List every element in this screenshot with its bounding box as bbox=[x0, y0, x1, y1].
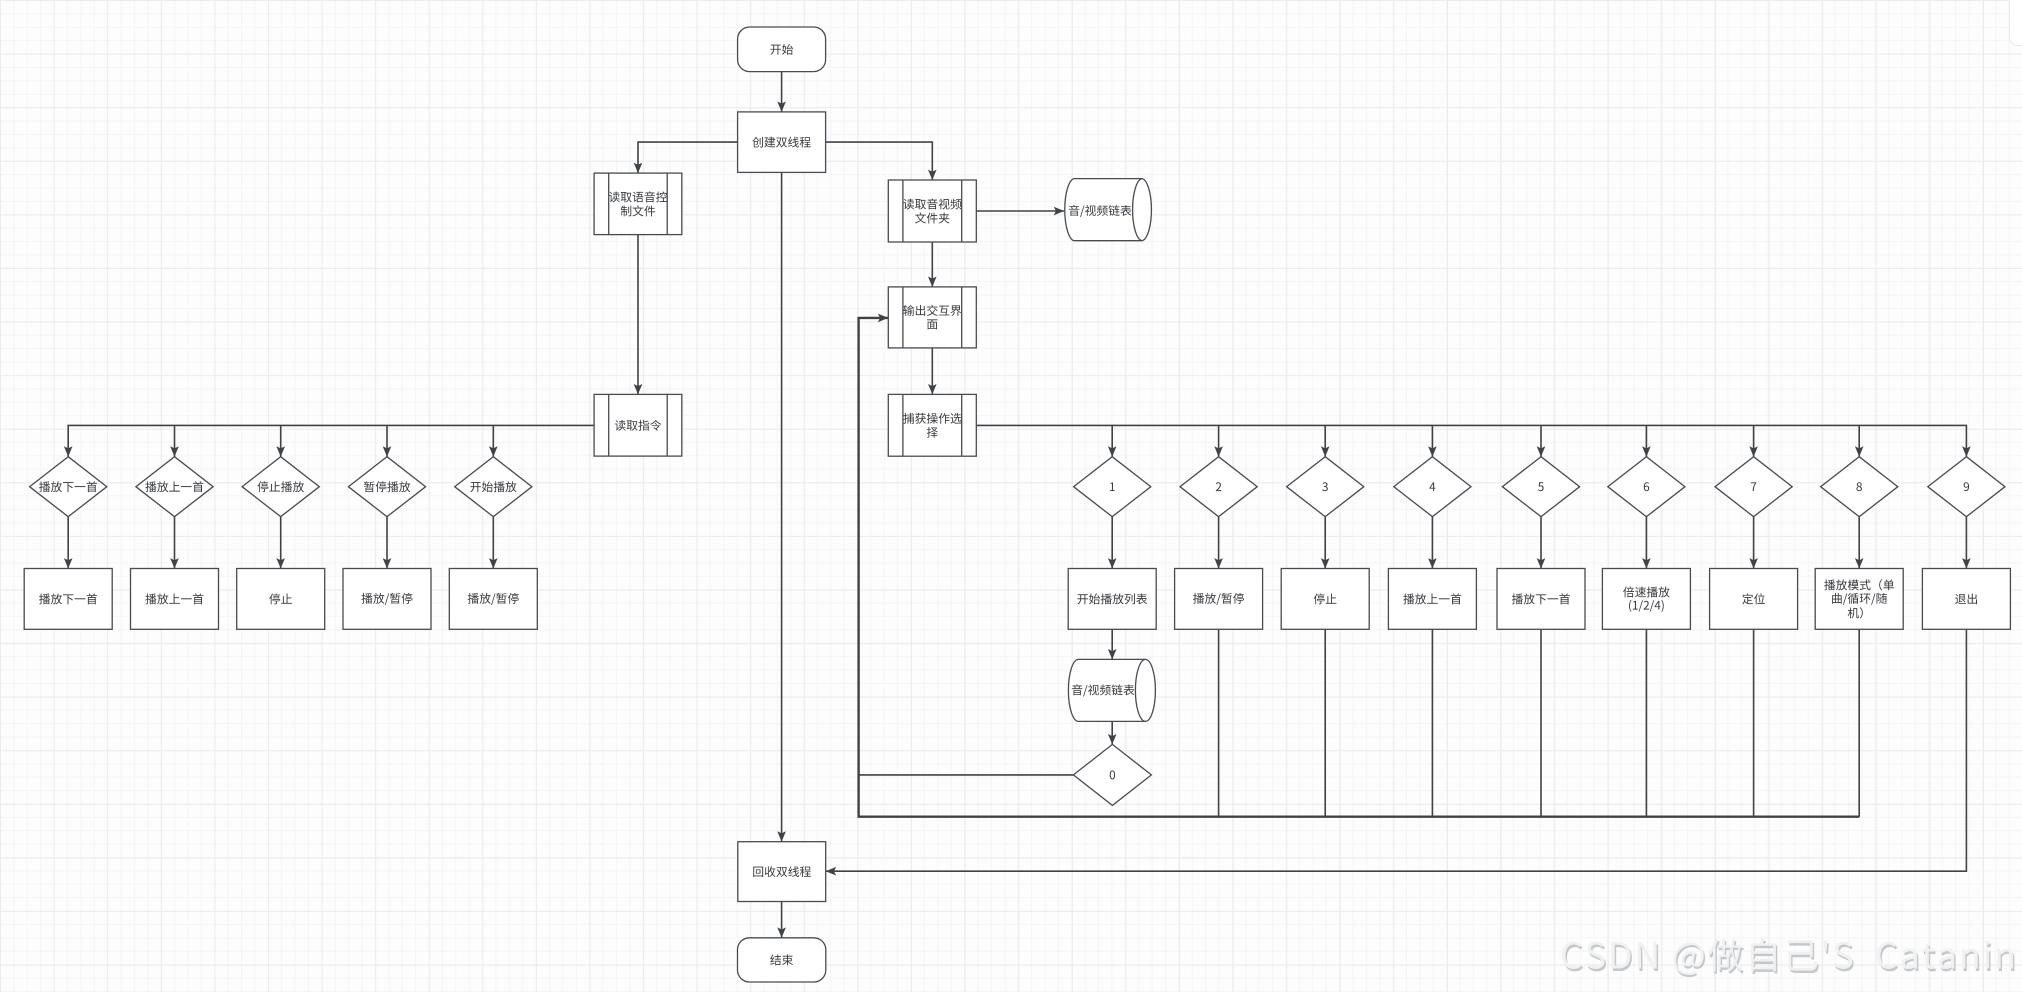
wire: diamond to action box bbox=[1540, 517, 1542, 569]
wire: loop back bus to output-ui bbox=[859, 318, 1860, 817]
label: 创建双线程 bbox=[752, 137, 810, 148]
wire: read-av-folder to output-ui bbox=[931, 242, 933, 287]
wire: right bus drop bbox=[1111, 425, 1113, 456]
action box: 停止 bbox=[1281, 569, 1369, 630]
wire: left bus from read-command bbox=[68, 425, 594, 456]
decision diamond: 1 bbox=[1074, 457, 1151, 517]
wire: action box drop to loop bus bbox=[1431, 629, 1433, 816]
decision diamond: 播放上一首 bbox=[136, 457, 213, 517]
decision diamond: 4 bbox=[1394, 457, 1471, 517]
scrollbar widget top-right bbox=[2009, 0, 2022, 46]
label: 播放上一首 bbox=[1403, 593, 1461, 604]
label: 7 bbox=[1751, 482, 1756, 491]
label: 播放/暂停 bbox=[468, 593, 519, 605]
decision diamond: 暂停播放 bbox=[348, 457, 425, 517]
label: 播放上一首 bbox=[145, 481, 203, 492]
decision diamond: 播放下一首 bbox=[30, 457, 107, 517]
wire: right bus drop bbox=[1540, 425, 1542, 456]
wire: exit to recycle-threads bbox=[826, 629, 1967, 871]
label: 播放/暂停 bbox=[361, 593, 412, 605]
decision diamond: 3 bbox=[1287, 457, 1364, 517]
action box: 播放下一首 bbox=[1497, 569, 1585, 630]
predefined process: 读取指令 bbox=[594, 394, 682, 456]
label: 播放下一首 bbox=[39, 481, 97, 492]
decision diamond: 0 bbox=[1073, 744, 1151, 805]
action box: 播放上一首 bbox=[1388, 569, 1476, 630]
predefined process: 读取语音控制文件 bbox=[594, 173, 682, 235]
label: 回收双线程 bbox=[753, 866, 811, 877]
wire: right bus drop bbox=[1324, 425, 1326, 456]
label: 暂停播放 bbox=[364, 481, 410, 492]
label: 播放上一首 bbox=[145, 593, 203, 604]
decision diamond: 5 bbox=[1502, 457, 1579, 517]
action box: 播放下一首 bbox=[24, 569, 112, 630]
decision diamond: 9 bbox=[1928, 457, 2005, 517]
wire: diamond 0 to loop line bbox=[859, 774, 1074, 776]
label: 停止 bbox=[1314, 593, 1337, 604]
action box: 播放/暂停 bbox=[1175, 569, 1263, 630]
label: 播放下一首 bbox=[39, 593, 97, 604]
wire: action box drop to loop bus bbox=[1645, 629, 1647, 816]
wire: action box drop to loop bus bbox=[1858, 629, 1860, 816]
storage cylinder: 音/视频链表 (top) bbox=[1065, 179, 1152, 241]
label: 开始播放列表 bbox=[1077, 593, 1147, 604]
label: 停止 bbox=[269, 593, 292, 604]
wire: start-playlist to av-list cylinder 2 bbox=[1111, 629, 1113, 659]
decision diamond: 2 bbox=[1180, 457, 1257, 517]
predefined process: 捕获操作选择 bbox=[888, 394, 976, 456]
decision diamond: 7 bbox=[1715, 457, 1792, 517]
label: 1 bbox=[1110, 482, 1115, 491]
label: 定位 bbox=[1742, 593, 1765, 604]
label: 音/视频链表 bbox=[1072, 684, 1135, 696]
wire: action box drop to loop bus bbox=[1753, 629, 1755, 816]
label: 读取语音控/制文件 bbox=[609, 191, 667, 202]
wire: right bus drop bbox=[1645, 425, 1647, 456]
label: 停止播放 bbox=[257, 481, 303, 492]
predefined process: 输出交互界面 bbox=[888, 287, 976, 348]
label: 倍速播放/(1/2/4) bbox=[1623, 586, 1670, 597]
wire: output-ui to capture-choice bbox=[931, 348, 933, 395]
action box: 定位 bbox=[1710, 569, 1798, 630]
wire: right bus drop bbox=[1753, 425, 1755, 456]
wire: diamond to action box bbox=[174, 517, 176, 569]
wire: diamond to action box bbox=[67, 517, 69, 569]
label: 4 bbox=[1429, 482, 1435, 491]
action box: 开始播放列表 bbox=[1068, 569, 1156, 630]
wire: diamond to action box bbox=[1431, 517, 1433, 569]
wire: diamond to action box bbox=[386, 517, 388, 569]
label: 2 bbox=[1216, 482, 1221, 491]
label: 退出 bbox=[1955, 593, 1977, 604]
action box: 倍速播放(1/2/4) bbox=[1602, 569, 1690, 630]
wire: left bus drop bbox=[174, 425, 176, 456]
wire: diamond to action box bbox=[1324, 517, 1326, 569]
label: 3 bbox=[1322, 482, 1328, 491]
wire: recycle-threads to end bbox=[781, 902, 783, 938]
wire: read-voice-file to read-command bbox=[637, 235, 639, 395]
wire: read-av-folder to av-list cylinder bbox=[976, 210, 1064, 212]
label: 9 bbox=[1964, 482, 1969, 491]
label: 音/视频链表 bbox=[1069, 205, 1132, 217]
label: 播放下一首 bbox=[1512, 593, 1570, 604]
wire: action box drop to loop bus bbox=[1324, 629, 1326, 816]
label: 读取音视频/文件夹 bbox=[903, 198, 961, 209]
action box: 退出 bbox=[1922, 569, 2010, 630]
storage cylinder: 音/视频链表 (bottom) bbox=[1068, 659, 1155, 721]
label: 开始 bbox=[770, 44, 793, 55]
label: 读取指令 bbox=[615, 420, 661, 431]
wire: action box drop to loop bus bbox=[1218, 629, 1220, 816]
label: 6 bbox=[1644, 482, 1649, 491]
wire: diamond to action box bbox=[1965, 517, 1967, 569]
wire: right bus drop bbox=[1218, 425, 1220, 456]
action box: 播放/暂停 bbox=[343, 569, 431, 630]
terminator: 结束 (end) bbox=[738, 938, 826, 982]
wire: diamond to action box bbox=[1111, 517, 1113, 569]
decision diamond: 停止播放 bbox=[242, 457, 319, 517]
label: 0 bbox=[1110, 770, 1115, 779]
label: 8 bbox=[1856, 482, 1861, 491]
wire: diamond to action box bbox=[1218, 517, 1220, 569]
wire: start to create-threads bbox=[781, 71, 783, 112]
wire: diamond to action box bbox=[492, 517, 494, 569]
process: 回收双线程 bbox=[738, 842, 826, 902]
wire: left bus drop bbox=[492, 425, 494, 456]
action box: 播放/暂停 bbox=[449, 569, 537, 630]
label: 捕获操作选/择 bbox=[903, 413, 961, 424]
label: 结束 bbox=[770, 954, 793, 965]
process: 创建双线程 bbox=[738, 112, 826, 172]
wire: action box drop to loop bus bbox=[1540, 629, 1542, 816]
wire: diamond to action box bbox=[1645, 517, 1647, 569]
wire: left bus drop bbox=[386, 425, 388, 456]
wire: diamond to action box bbox=[1753, 517, 1755, 569]
action box: 播放上一首 bbox=[131, 569, 219, 630]
wire: diamond to action box bbox=[1858, 517, 1860, 569]
wire: cylinder 2 to diamond 0 bbox=[1111, 721, 1113, 744]
label: 5 bbox=[1538, 482, 1544, 491]
wire: right bus drop bbox=[1858, 425, 1860, 456]
predefined process: 读取音视频文件夹 bbox=[888, 180, 976, 242]
wire: create-threads down to recycle-threads bbox=[781, 172, 783, 841]
terminator: 开始 (start) bbox=[738, 27, 826, 72]
CSDN watermark bbox=[1562, 938, 2014, 977]
label: 播放/暂停 bbox=[1193, 593, 1244, 605]
decision diamond: 开始播放 bbox=[455, 457, 532, 517]
label: 开始播放 bbox=[470, 481, 516, 492]
action box: 播放模式（单曲/循环/随机） bbox=[1815, 569, 1903, 630]
action box: 停止 bbox=[237, 569, 325, 630]
decision diamond: 6 bbox=[1608, 457, 1685, 517]
wire: left bus drop bbox=[280, 425, 282, 456]
label: 输出交互界/面 bbox=[903, 305, 961, 316]
wire: create-threads right branch to read-av-folder bbox=[826, 142, 933, 180]
wire: create-threads left branch to read-voice-file bbox=[638, 142, 738, 173]
wire: right bus from capture-choice bbox=[976, 425, 1966, 456]
decision diamond: 8 bbox=[1821, 457, 1898, 517]
label: 播放模式（单/曲/循环/随/机） bbox=[1824, 579, 1894, 590]
wire: right bus drop bbox=[1431, 425, 1433, 456]
wire: diamond to action box bbox=[280, 517, 282, 569]
